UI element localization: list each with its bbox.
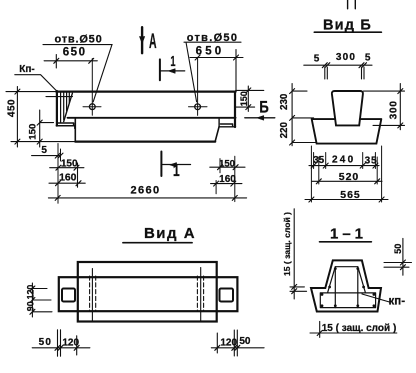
svg-text:кп-: кп- — [389, 296, 406, 308]
dim 150 right end vertical — [236, 86, 264, 111]
dim 160 bottom left — [49, 163, 85, 187]
svg-text:Вид Б: Вид Б — [323, 18, 372, 34]
svg-text:150: 150 — [61, 159, 78, 170]
corbel inner top line — [46, 96, 73, 98]
dim 15 left vertical — [290, 209, 307, 299]
svg-text:90: 90 — [26, 301, 36, 311]
svg-text:220: 220 — [279, 121, 290, 138]
svg-text:565: 565 — [340, 189, 361, 201]
dim 150 bottom right — [210, 165, 245, 170]
view B upper block — [332, 91, 363, 125]
corbel hatch lines — [61, 92, 70, 122]
plan bottom-right dims 120 50 — [211, 330, 264, 356]
dim 520 — [312, 179, 382, 184]
label kp leader — [362, 294, 390, 302]
hole 1 crosshair — [83, 59, 101, 116]
svg-text:120: 120 — [220, 337, 237, 348]
view B left dims 230 220 — [290, 84, 316, 146]
dim 150 left vertical — [37, 110, 53, 147]
svg-text:1: 1 — [170, 53, 175, 70]
svg-text:2660: 2660 — [130, 185, 160, 197]
svg-text:650: 650 — [63, 47, 87, 59]
right end extension lines — [216, 156, 235, 201]
plan right hidden lines — [197, 276, 203, 312]
beam right end edge — [234, 92, 236, 127]
svg-text:230: 230 — [279, 93, 290, 110]
svg-text:150: 150 — [219, 158, 235, 169]
svg-text:5: 5 — [314, 53, 320, 64]
svg-text:35: 35 — [313, 155, 325, 166]
view A title underline — [123, 242, 192, 244]
svg-text:50: 50 — [393, 244, 403, 254]
svg-text:120: 120 — [62, 337, 79, 348]
svg-text:300: 300 — [389, 100, 400, 119]
plan right hole square — [220, 289, 234, 302]
base right slope — [215, 127, 219, 142]
svg-text:15 ( защ. слой ): 15 ( защ. слой ) — [322, 323, 397, 334]
dim 150 bottom left — [50, 165, 84, 170]
svg-text:А: А — [149, 29, 157, 53]
svg-text:520: 520 — [339, 171, 360, 183]
svg-text:160: 160 — [219, 174, 236, 185]
svg-text:650: 650 — [196, 46, 225, 58]
plan body rectangle — [78, 262, 217, 322]
view B bottom extensions — [311, 146, 381, 202]
svg-text:150: 150 — [27, 124, 38, 140]
plan left hidden lines — [90, 276, 96, 312]
beam band bottom edge — [68, 117, 236, 119]
svg-text:450: 450 — [7, 99, 18, 117]
section stirrup vertical bars — [335, 267, 358, 308]
rebar dots — [321, 267, 376, 307]
section mark 1 top — [159, 59, 161, 80]
beam top edge — [56, 90, 235, 92]
svg-text:Вид А: Вид А — [144, 225, 196, 242]
svg-text:240: 240 — [332, 155, 355, 166]
svg-text:120: 120 — [26, 285, 36, 300]
hole 2 crosshair — [189, 58, 208, 115]
svg-text:отв.Ø50: отв.Ø50 — [54, 34, 102, 46]
corbel diagonal face — [64, 93, 73, 121]
plan wings band rectangle — [59, 277, 238, 311]
svg-text:Кп-: Кп- — [19, 64, 34, 75]
dim 50 section right — [384, 238, 412, 275]
plan left centerline — [91, 269, 93, 321]
svg-text:1: 1 — [173, 163, 180, 181]
svg-text:150: 150 — [239, 91, 249, 106]
view B lower block — [312, 119, 382, 144]
svg-text:Б: Б — [259, 98, 269, 117]
section outer outline — [311, 260, 381, 311]
dim 35 240 35 — [309, 163, 379, 168]
view arrow B right end — [245, 117, 275, 119]
svg-text:5: 5 — [41, 145, 47, 156]
top edge scan marks — [348, 0, 356, 9]
dim 160 bottom right — [211, 181, 242, 186]
plan bottom-left dims 50 120 — [32, 330, 90, 356]
plan left vertical dims 120 90 — [30, 283, 52, 317]
section title underline — [320, 241, 372, 243]
label otv.50 left leader — [43, 45, 112, 102]
left end extension lines — [58, 144, 61, 204]
svg-text:300: 300 — [336, 52, 356, 63]
section mark 1 bottom — [160, 152, 162, 177]
view B title underline — [314, 31, 381, 33]
dim 650 right — [190, 50, 243, 92]
dim 650 left — [44, 55, 97, 69]
view arrow A — [141, 27, 143, 53]
svg-text:50: 50 — [239, 336, 251, 347]
svg-text:отв.Ø50: отв.Ø50 — [187, 32, 239, 44]
svg-text:5: 5 — [365, 53, 371, 64]
section inner cage — [320, 267, 375, 308]
dim 2660 — [48, 195, 246, 200]
svg-text:35: 35 — [365, 156, 378, 167]
svg-text:160: 160 — [59, 172, 77, 183]
dim 15 bottom — [310, 321, 397, 337]
base left edge — [74, 118, 76, 142]
hole 1 circle — [89, 104, 95, 110]
dim 450 left — [6, 87, 75, 148]
plan right centerline — [200, 268, 202, 321]
label otv.50 right leader — [184, 42, 241, 102]
corbel left end — [56, 91, 58, 126]
right end ledge — [219, 119, 235, 127]
plan left hole square — [62, 289, 75, 302]
dim 5 300 5 top — [304, 63, 372, 79]
view B right dim 300 — [364, 84, 405, 130]
label Kp- top-left — [15, 75, 57, 91]
base bottom edge — [75, 141, 215, 143]
svg-text:15 ( защ. слой ): 15 ( защ. слой ) — [282, 212, 292, 276]
svg-text:50: 50 — [39, 337, 53, 348]
corbel bottom ledge — [56, 123, 75, 128]
svg-text:1–1: 1–1 — [330, 226, 367, 243]
hole 2 circle — [195, 104, 201, 110]
dim 5 bottom left — [32, 153, 63, 158]
dim 565 — [305, 197, 388, 202]
